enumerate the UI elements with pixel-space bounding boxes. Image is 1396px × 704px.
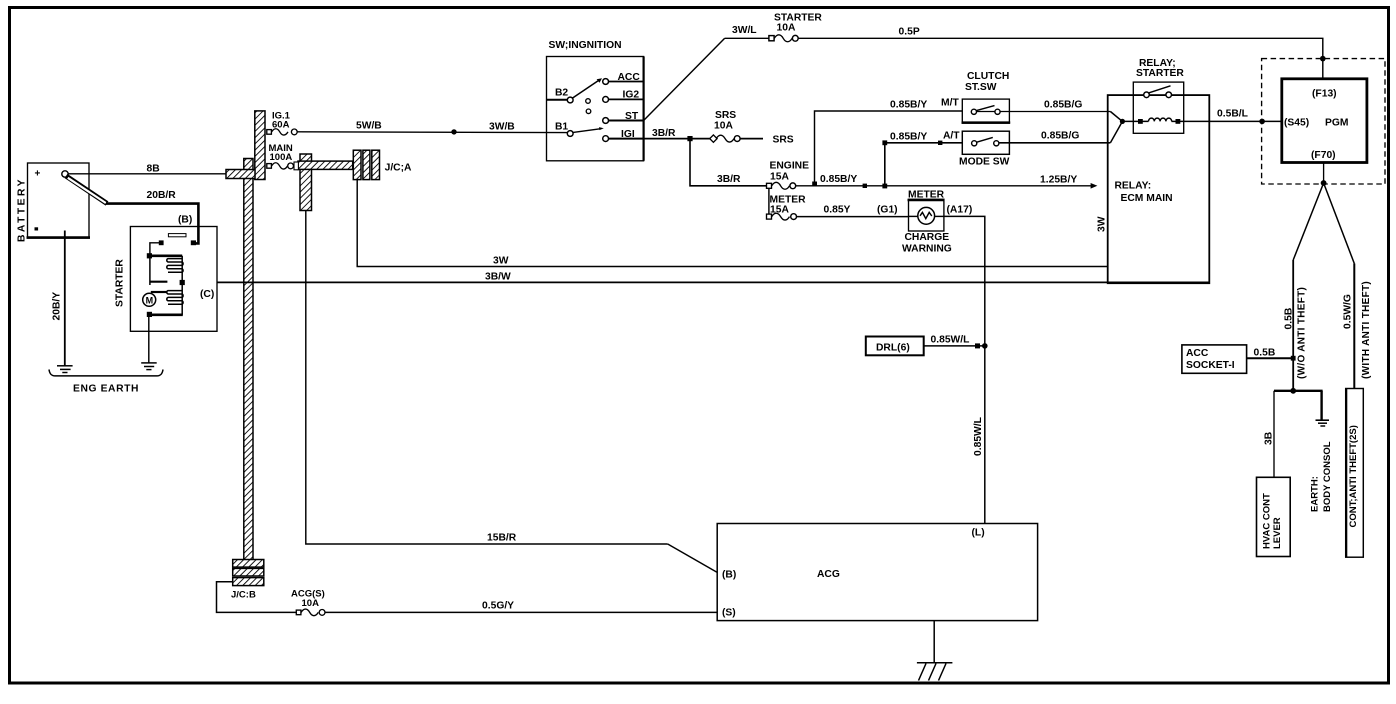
wire 5W/B / 3W/B (297, 121, 567, 133)
wire ACG ground (933, 621, 935, 663)
svg-text:5W/B: 5W/B (356, 121, 382, 132)
svg-text:M/T: M/T (941, 98, 959, 109)
svg-text:ECM MAIN: ECM MAIN (1121, 193, 1173, 204)
fuse STARTER 10A (725, 13, 823, 42)
wire meter fuse out 0.85Y (797, 205, 909, 217)
svg-text:WARNING: WARNING (902, 244, 952, 255)
wire riser to M/T clutch sw (812, 111, 962, 186)
bus bar A (fuse block vertical) (255, 111, 265, 180)
fuse MAIN 100A (267, 143, 299, 170)
wire 0.5B branch (W/O anti theft) (1284, 260, 1308, 391)
wire fuse feed vertical (768, 186, 770, 217)
svg-text:A/T: A/T (943, 131, 960, 142)
node DRL junction (982, 343, 988, 349)
svg-text:ST: ST (625, 111, 639, 122)
svg-text:3W/L: 3W/L (732, 25, 757, 36)
node splice on 0.85B/Y (863, 184, 867, 188)
svg-text:0.85W/L: 0.85W/L (931, 335, 970, 346)
svg-text:J/C;A: J/C;A (385, 163, 412, 174)
wire 0.5W/G branch (with anti theft) (1343, 264, 1373, 389)
wire riser to A/T mode sw (882, 140, 962, 188)
svg-text:0.5B: 0.5B (1254, 348, 1276, 359)
eng earth brace (49, 370, 163, 395)
svg-text:BODY CONSOL: BODY CONSOL (1322, 441, 1333, 512)
svg-text:LEVER: LEVER (1272, 517, 1283, 549)
svg-text:15A: 15A (770, 172, 789, 183)
svg-text:0.5B/L: 0.5B/L (1217, 109, 1248, 120)
svg-text:EARTH:: EARTH: (1310, 476, 1321, 512)
svg-text:0.85B/Y: 0.85B/Y (820, 174, 857, 185)
svg-text:(A17): (A17) (947, 205, 973, 216)
svg-text:PGM: PGM (1325, 118, 1348, 129)
svg-text:15B/R: 15B/R (487, 533, 517, 544)
svg-text:3B/R: 3B/R (717, 174, 741, 185)
svg-text:ENG EARTH: ENG EARTH (73, 384, 139, 395)
svg-text:0.85W/L: 0.85W/L (973, 417, 984, 456)
svg-text:0.85B/Y: 0.85B/Y (890, 132, 927, 143)
svg-text:SW;INGNITION: SW;INGNITION (549, 40, 622, 51)
HVAC CONT LEVER box (1257, 477, 1291, 556)
svg-text:B1: B1 (555, 122, 568, 133)
svg-text:10A: 10A (777, 23, 796, 34)
svg-text:(B): (B) (722, 570, 736, 581)
wire 0.5G/Y to ACG (S) (325, 601, 717, 613)
svg-text:100A: 100A (270, 152, 293, 163)
wire J/C:B to ACG(S) fuse (217, 582, 297, 613)
node junction 3B/R (687, 136, 692, 141)
wire A17 to ACG (L) drop (944, 216, 985, 523)
svg-text:DRL(6): DRL(6) (876, 343, 910, 354)
wire engine fuse out 0.85B/Y 1.25B/Y (796, 174, 1098, 189)
svg-text:J/C:B: J/C:B (231, 590, 256, 601)
ground eng earth (battery) (57, 366, 73, 373)
svg-text:BATTERY: BATTERY (17, 177, 28, 242)
svg-text:(W/O ANTI THEFT): (W/O ANTI THEFT) (1297, 287, 1308, 379)
wire bar D drop + 15B/R to ACG (B) (306, 211, 718, 573)
ignition switch SW;INGNITION (547, 40, 644, 161)
svg-text:0.5W/G: 0.5W/G (1343, 294, 1354, 329)
DRL(6) box (866, 335, 985, 356)
svg-text:3W/B: 3W/B (489, 122, 515, 133)
wire PGM (F70) down to fork (1323, 163, 1325, 184)
svg-text:ENGINE: ENGINE (770, 161, 810, 172)
fuse IG.1 60A (267, 111, 297, 136)
battery B+ box (17, 163, 91, 242)
ground earth body consol (1310, 420, 1334, 512)
svg-text:ACG: ACG (817, 569, 840, 580)
svg-text:SRS: SRS (715, 110, 736, 121)
svg-text:SRS: SRS (773, 135, 794, 146)
svg-text:IGI: IGI (621, 129, 635, 140)
svg-text:20B/Y: 20B/Y (52, 292, 63, 321)
svg-text:(WITH ANTI THEFT): (WITH ANTI THEFT) (1361, 281, 1372, 379)
svg-text:3B: 3B (1264, 432, 1275, 445)
svg-text:M: M (146, 295, 154, 305)
svg-text:ACC: ACC (618, 72, 641, 83)
bus bar B (long vertical to J/C:B) (244, 159, 253, 561)
svg-text:0.5G/Y: 0.5G/Y (482, 601, 514, 612)
svg-text:(S): (S) (722, 608, 736, 619)
starter motor box (115, 227, 218, 332)
fuse ENGINE 15A (767, 161, 810, 190)
junction block J/C:B (231, 560, 264, 601)
svg-text:0.5P: 0.5P (899, 27, 920, 38)
wire 3B/W rail (starter C to ECM relay) (217, 272, 1210, 283)
CONT;ANTI THEFT box (1346, 389, 1364, 558)
PGM dashed enclosure (1262, 59, 1385, 184)
svg-text:HVAC CONT: HVAC CONT (1262, 493, 1273, 549)
ground eng earth (starter) (141, 363, 157, 370)
fuse ACG(S) 10A (291, 589, 325, 616)
svg-text:10A: 10A (714, 121, 733, 132)
svg-text:RELAY:: RELAY: (1115, 181, 1152, 192)
junction block J/C:A (353, 150, 412, 179)
svg-text:1.25B/Y: 1.25B/Y (1040, 175, 1077, 186)
svg-text:0.85B/Y: 0.85B/Y (890, 100, 927, 111)
wire fork diagonals (1293, 183, 1354, 264)
wire 0.5B/L to PGM (S45) (1180, 109, 1282, 125)
ACG alternator box (717, 524, 1037, 621)
meter box charge warning lamp (902, 190, 972, 255)
svg-text:CONT;ANTI THEFT(2S): CONT;ANTI THEFT(2S) (1348, 425, 1359, 527)
PGM module box (1282, 79, 1367, 163)
wire starter ground (148, 317, 150, 363)
svg-text:(G1): (G1) (877, 205, 898, 216)
svg-text:3W: 3W (1097, 216, 1108, 232)
svg-text:STARTER: STARTER (1136, 68, 1184, 79)
svg-text:(L): (L) (972, 528, 985, 539)
wire 3B drop to HVAC (1264, 391, 1275, 478)
bus bar D (vertical at x306) (300, 154, 312, 211)
wire 0.5P to PGM (798, 27, 1323, 79)
wire 8B battery to bus (68, 164, 226, 175)
mode switch A/T (890, 131, 1110, 168)
svg-text:3B/W: 3B/W (485, 272, 511, 283)
relay starter box (1122, 58, 1184, 133)
svg-text:8B: 8B (147, 164, 160, 175)
svg-text:20B/R: 20B/R (147, 190, 177, 201)
svg-text:(F13): (F13) (1312, 89, 1337, 100)
wire J/C:A drop + 3W rail (357, 180, 1107, 267)
svg-text:3W: 3W (493, 256, 509, 267)
node splice on 3W/B (451, 129, 456, 134)
svg-text:0.85Y: 0.85Y (824, 205, 851, 216)
svg-text:0.85B/G: 0.85B/G (1044, 100, 1082, 111)
svg-text:CLUTCH: CLUTCH (967, 71, 1009, 82)
svg-text:(F70): (F70) (1311, 150, 1336, 161)
svg-text:STARTER: STARTER (115, 259, 126, 307)
bus bar E (horizontal to J/C:A) (298, 161, 353, 169)
svg-text:ST.SW: ST.SW (965, 82, 997, 93)
node on dashed top (1320, 56, 1326, 62)
wire 3B/R drop to engine fuse (690, 141, 769, 186)
svg-text:0.85B/G: 0.85B/G (1041, 131, 1079, 142)
ground ACG chassis (917, 663, 953, 681)
svg-text:IG2: IG2 (623, 90, 640, 101)
svg-text:15A: 15A (770, 205, 789, 216)
wire earth body consol drop (1320, 391, 1322, 420)
svg-text:(S45): (S45) (1284, 118, 1309, 129)
wire IGI out 3B/R (644, 128, 712, 139)
ECM main relay enclosure (1097, 95, 1210, 283)
wire 20B/R battery cable to starter (B) (66, 176, 198, 243)
svg-text:MODE SW: MODE SW (959, 157, 1010, 168)
svg-text:3B/R: 3B/R (652, 128, 676, 139)
wire 20B/Y battery minus to ground (52, 231, 65, 366)
svg-text:ACC: ACC (1186, 348, 1209, 359)
clutch start switch M/T (890, 71, 1110, 123)
svg-text:+: + (35, 169, 41, 180)
ACC SOCKET-I box (1182, 345, 1293, 373)
wire fork 0.85B/G merge (1110, 112, 1125, 143)
fuse METER 15A (767, 195, 807, 221)
node fork junction (1321, 180, 1327, 186)
svg-text:SOCKET-I: SOCKET-I (1186, 360, 1235, 371)
fuse SRS 10A (710, 110, 794, 146)
svg-text:10A: 10A (302, 598, 320, 609)
wire ST diagonal 3W/L (644, 25, 757, 121)
svg-text:(C): (C) (200, 289, 214, 300)
wire T bar bottom (1274, 388, 1323, 394)
svg-text:B2: B2 (555, 88, 568, 99)
svg-text:CHARGE: CHARGE (905, 232, 950, 243)
bus bar C (battery feed horizontal) (226, 170, 255, 179)
svg-text:(B): (B) (178, 215, 192, 226)
svg-text:0.5B: 0.5B (1284, 308, 1295, 330)
